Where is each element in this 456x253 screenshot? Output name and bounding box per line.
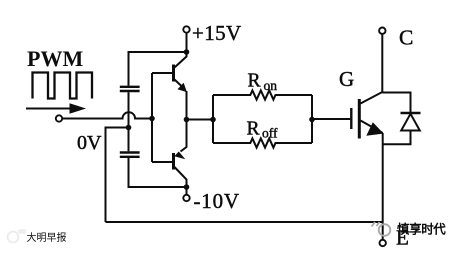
- svg-text:R: R: [247, 119, 260, 140]
- IGBT Q3: [351, 92, 383, 139]
- svg-text:慎享时代: 慎享时代: [397, 222, 446, 237]
- wire: input to base rail with hop over cap rail: [62, 112, 152, 118]
- PWM square wave: [33, 73, 93, 99]
- node: +15V rail junction: [184, 49, 190, 55]
- wire: gate lead: [312, 118, 350, 120]
- resistor Roff: [213, 138, 312, 147]
- node: cap midpoint: [126, 125, 132, 131]
- svg-text:0V: 0V: [77, 132, 102, 154]
- terminal +15V: [183, 26, 189, 32]
- node: resistor network left: [210, 117, 216, 123]
- terminal E: [380, 240, 386, 246]
- wire: bottom 0V rail to emitter: [106, 221, 383, 223]
- wire: resistor network left rail: [212, 95, 214, 143]
- wire: 0V tap to cap midpoint: [106, 128, 129, 223]
- node: resistor network right: [309, 117, 315, 123]
- node: -10V rail junction: [184, 184, 190, 190]
- svg-text:+15V: +15V: [192, 21, 242, 45]
- node: driver output: [184, 117, 190, 123]
- transistor Q2 (PNP): [152, 147, 187, 187]
- transistor Q1 (NPN): [152, 52, 187, 92]
- svg-text:on: on: [264, 78, 278, 93]
- terminal C: [379, 28, 385, 34]
- wire: +15V top rail to caps: [129, 52, 187, 86]
- wire: output to resistor network: [187, 119, 214, 121]
- wire: output rail between Q1/Q2: [186, 91, 188, 148]
- watermark logo bottom right: [372, 222, 391, 236]
- diode D1: [401, 113, 421, 131]
- wire: -10V stub: [186, 187, 188, 195]
- input terminal: [56, 115, 62, 121]
- wire: between capacitors: [128, 92, 130, 151]
- wire: base rail vertical: [151, 73, 153, 162]
- wire: diode top branch: [382, 93, 410, 114]
- wire: resistor network right rail: [311, 95, 313, 143]
- watermark bottom left: [8, 230, 26, 243]
- wire: +15V stub: [186, 33, 188, 52]
- wire: diode bottom branch: [383, 131, 411, 145]
- svg-text:C: C: [399, 26, 413, 50]
- resistor Ron: [213, 90, 312, 99]
- terminal -10V: [183, 195, 189, 201]
- svg-text:PWM: PWM: [27, 46, 83, 71]
- node: input/base junction: [149, 116, 155, 122]
- capacitor C2: [120, 153, 140, 157]
- svg-text:off: off: [262, 126, 278, 141]
- svg-text:-10V: -10V: [194, 189, 240, 213]
- wire: collector rail: [381, 34, 383, 93]
- svg-text:大明早报: 大明早报: [27, 231, 67, 244]
- svg-text:R: R: [248, 71, 261, 92]
- capacitor C1: [120, 87, 140, 91]
- signal arrow: [26, 103, 86, 113]
- wire: cap bottom to -10V node: [129, 158, 187, 187]
- wire: emitter rail: [382, 133, 384, 240]
- svg-text:G: G: [339, 67, 354, 91]
